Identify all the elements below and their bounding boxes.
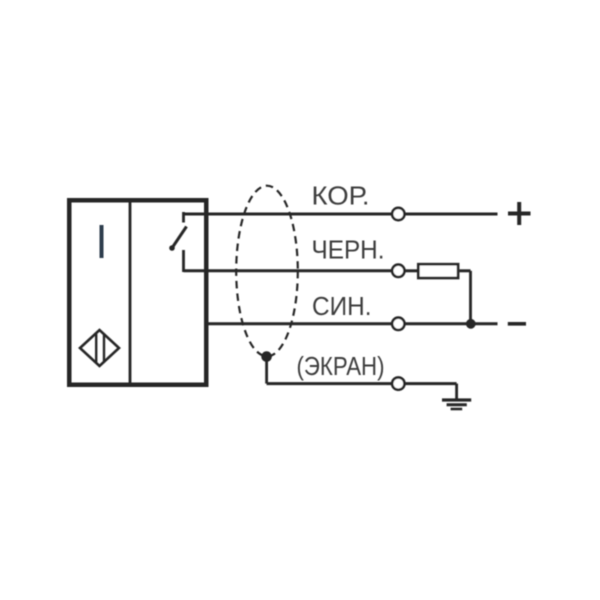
svg-text:СИН.: СИН. [312,291,372,321]
svg-text:ЧЕРН.: ЧЕРН. [312,234,385,264]
svg-text:(ЭКРАН): (ЭКРАН) [297,351,385,381]
svg-text:КОР.: КОР. [312,181,370,211]
